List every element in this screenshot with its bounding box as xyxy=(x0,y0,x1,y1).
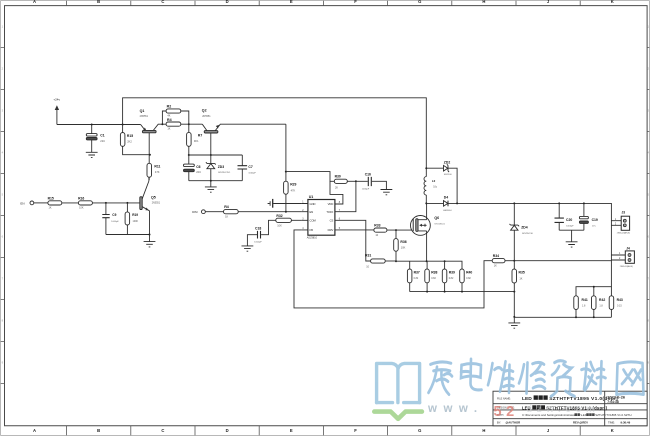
ground (C18) xyxy=(242,246,254,251)
transistor Q2 xyxy=(202,109,286,155)
resistor R19 xyxy=(125,203,138,235)
node source rail taps xyxy=(426,260,446,262)
svg-text:0.82: 0.82 xyxy=(466,277,471,280)
ground (sense) xyxy=(508,317,520,328)
char 4 xiu xyxy=(519,362,545,393)
input DIM xyxy=(192,210,223,214)
svg-text:22U: 22U xyxy=(196,170,201,174)
ground (C1) xyxy=(86,152,98,157)
svg-text:C6: C6 xyxy=(196,165,200,169)
row1 bold title xyxy=(522,394,626,404)
svg-text:DRV: DRV xyxy=(328,228,334,232)
svg-text:SB2100: SB2100 xyxy=(444,174,453,176)
resistor R4 xyxy=(162,118,202,131)
wire top boost rail xyxy=(123,98,427,168)
resistor R15 (EN) xyxy=(48,196,79,209)
char 6 liao xyxy=(582,361,606,393)
resistor R34 xyxy=(492,254,514,268)
svg-text:LED: LED xyxy=(522,396,532,402)
svg-text:R43: R43 xyxy=(617,298,623,302)
power +24v xyxy=(53,98,60,125)
svg-text:2863-02(AH-M): 2863-02(AH-M) xyxy=(620,265,633,268)
svg-text:Q2: Q2 xyxy=(202,109,207,113)
svg-text:22U: 22U xyxy=(100,139,105,143)
svg-text:E: E xyxy=(290,0,293,4)
ground (ZD3) xyxy=(205,181,217,193)
svg-text:1K: 1K xyxy=(519,278,522,281)
node Q1 base xyxy=(149,154,151,156)
svg-text:+24v: +24v xyxy=(53,98,60,102)
wire VDD net vertical xyxy=(285,124,287,181)
svg-text:ZD4: ZD4 xyxy=(521,225,528,229)
wire Q6 drain xyxy=(426,203,428,219)
svg-text:A: A xyxy=(33,0,36,4)
svg-text:R35: R35 xyxy=(519,271,525,275)
svg-text:FB: FB xyxy=(310,228,314,232)
wire sense bottom rail xyxy=(410,291,515,293)
svg-text:1000pF: 1000pF xyxy=(566,226,574,228)
wire C6/ZD3/C7 top rail xyxy=(189,154,243,156)
svg-text:0.82: 0.82 xyxy=(431,277,436,280)
svg-text:AOZ9810: AOZ9810 xyxy=(307,237,318,240)
IC U1 xyxy=(302,195,341,240)
node clamp top rail xyxy=(188,154,212,156)
resistor R40 xyxy=(460,269,473,292)
svg-text:TOFF: TOFF xyxy=(326,210,333,214)
svg-text:R29: R29 xyxy=(290,183,296,187)
svg-text:TIME:: TIME: xyxy=(608,420,615,424)
watermark chinese brush text xyxy=(429,359,644,396)
zener ZD4 xyxy=(510,203,534,260)
zener ZD2 xyxy=(426,160,457,203)
node CS sense xyxy=(395,260,397,262)
svg-text:1000pF: 1000pF xyxy=(254,242,262,244)
capacitor C7 xyxy=(238,155,257,181)
wire TOFF xyxy=(335,181,356,211)
char 2 dian xyxy=(461,359,482,390)
svg-text:C19: C19 xyxy=(592,218,598,222)
ground (Q5) xyxy=(144,235,156,247)
svg-text:HER504: HER504 xyxy=(443,210,452,212)
svg-text:2N5551: 2N5551 xyxy=(152,202,161,205)
svg-text:B: B xyxy=(97,428,100,433)
svg-text:52: 52 xyxy=(494,404,519,420)
watermark url xyxy=(427,403,599,420)
node ZD2 return xyxy=(456,202,458,204)
wire bottom right rail xyxy=(514,316,611,318)
node L2 top xyxy=(425,167,427,169)
node R2/R4 ends xyxy=(161,123,189,125)
resistor R11 xyxy=(147,155,161,180)
wire +24V rail xyxy=(57,124,141,126)
wire LED return xyxy=(514,261,611,296)
svg-text:STU19L01: STU19L01 xyxy=(434,223,445,225)
input EN xyxy=(20,201,48,205)
svg-text:R40: R40 xyxy=(466,271,472,275)
char 7 wang xyxy=(617,362,644,395)
node VDD branch xyxy=(285,171,287,173)
inductor L2 xyxy=(424,168,438,203)
svg-text:1000pF: 1000pF xyxy=(362,189,370,191)
svg-text:B: B xyxy=(97,0,100,4)
svg-text:FILE NAME:: FILE NAME: xyxy=(497,398,511,401)
svg-text:R36: R36 xyxy=(400,240,406,244)
svg-text:2N5551: 2N5551 xyxy=(202,115,211,118)
svg-text:R11: R11 xyxy=(154,164,160,168)
resistor R42 xyxy=(592,287,606,318)
node L2 bottom / drain xyxy=(425,202,427,204)
svg-text:dzw.com: dzw.com xyxy=(526,404,599,415)
resistor R36 xyxy=(394,230,407,261)
svg-text:E: E xyxy=(290,428,293,433)
svg-text:R42: R42 xyxy=(599,298,605,302)
svg-text:R41: R41 xyxy=(582,298,588,302)
svg-text:9K1: 9K1 xyxy=(194,139,199,143)
node C1 tap xyxy=(91,124,124,126)
svg-text:2K2: 2K2 xyxy=(127,139,132,143)
svg-text:F: F xyxy=(354,428,357,433)
svg-text:R19: R19 xyxy=(132,213,138,217)
svg-text:47K: 47K xyxy=(155,170,160,174)
resistor R2 xyxy=(162,104,188,124)
wire C6/ZD3/C7 bottom rail xyxy=(189,180,243,182)
resistor R41 xyxy=(574,296,588,318)
connector J4 xyxy=(611,247,634,268)
svg-text:L2: L2 xyxy=(432,179,436,183)
svg-text:R4: R4 xyxy=(224,205,229,209)
node EN/R29 xyxy=(285,211,287,213)
node sense bottom taps xyxy=(426,291,515,293)
svg-text:J3: J3 xyxy=(622,211,626,215)
ground (output caps) xyxy=(566,230,578,247)
capacitor C20 xyxy=(555,203,575,230)
resistor R30 xyxy=(334,175,356,190)
char 5 zi xyxy=(551,361,575,397)
resistor R35 xyxy=(512,261,525,317)
svg-text:EN: EN xyxy=(310,210,314,214)
svg-text:DIM: DIM xyxy=(192,210,198,214)
svg-text:H: H xyxy=(482,0,485,4)
resistor R31 xyxy=(365,254,396,269)
svg-text:BZV85C30: BZV85C30 xyxy=(522,233,533,235)
svg-text:R33: R33 xyxy=(374,224,380,228)
wire DRV to gate xyxy=(335,229,374,231)
svg-text:VDD: VDD xyxy=(328,202,334,206)
resistor R43 xyxy=(609,287,623,318)
svg-text:47K: 47K xyxy=(291,188,296,192)
svg-text:K: K xyxy=(611,428,614,433)
svg-text:C20: C20 xyxy=(566,218,572,222)
row3 path xyxy=(522,413,632,417)
svg-text:ZD3: ZD3 xyxy=(218,165,225,169)
svg-text:G: G xyxy=(418,428,421,433)
capacitor C19 xyxy=(579,203,598,230)
resistor R33 xyxy=(374,224,412,238)
svg-text:10K: 10K xyxy=(79,207,84,210)
svg-text:R15: R15 xyxy=(48,196,54,200)
svg-text:9:36:49: 9:36:49 xyxy=(621,420,631,424)
svg-text:D4: D4 xyxy=(444,195,448,199)
svg-text:www.: www. xyxy=(427,403,484,415)
svg-text:R7: R7 xyxy=(198,134,202,138)
svg-text:R38: R38 xyxy=(431,271,437,275)
wire FB loop xyxy=(294,230,492,308)
svg-text:C7: C7 xyxy=(248,165,252,169)
capacitor at GND pin xyxy=(268,199,302,208)
wire source sense rail xyxy=(396,261,462,269)
svg-text:R39: R39 xyxy=(449,271,455,275)
wire output rail xyxy=(514,203,611,260)
svg-text:0.82: 0.82 xyxy=(414,277,419,280)
MOSFET Q6 xyxy=(411,216,446,236)
wire Q5 bottom rail xyxy=(106,234,150,236)
svg-text:R30: R30 xyxy=(335,175,341,179)
resistor R29 xyxy=(284,181,297,212)
node output rail taps xyxy=(513,202,585,204)
svg-text:@AUTHOR: @AUTHOR xyxy=(506,420,521,424)
diode D4 xyxy=(426,195,514,211)
node R42 top xyxy=(593,286,595,288)
svg-text:Q6: Q6 xyxy=(434,216,439,220)
resistor R38 xyxy=(425,261,438,291)
node clamp bottom xyxy=(210,180,212,182)
svg-text:SZTHTFTV1895 V1.0.SZTH: SZTHTFTV1895 V1.0.SZTH xyxy=(595,413,631,417)
svg-text:BZV85C3V1: BZV85C3V1 xyxy=(218,172,231,174)
svg-text:1K: 1K xyxy=(49,207,52,210)
svg-text:2N5551: 2N5551 xyxy=(140,115,149,118)
resistor R15 (2K2) xyxy=(120,125,149,155)
svg-text:2K: 2K xyxy=(335,186,338,189)
svg-text:R4: R4 xyxy=(167,118,172,122)
svg-text:R15: R15 xyxy=(127,134,133,138)
svg-text:1000pF: 1000pF xyxy=(111,221,119,223)
svg-text:2863-02(AH-M): 2863-02(AH-M) xyxy=(617,232,630,235)
svg-text:K: K xyxy=(611,0,614,4)
resistor R4 (DIM) xyxy=(224,205,302,218)
node ground rail xyxy=(513,316,515,318)
svg-text:ZD2: ZD2 xyxy=(444,160,451,164)
svg-text:D: D xyxy=(226,0,229,4)
zener ZD3 xyxy=(206,155,231,181)
wire VDD pin route xyxy=(330,181,343,204)
watermark logo swoosh xyxy=(374,412,422,419)
node C9/R19 taps xyxy=(105,202,128,204)
wire to R30 xyxy=(286,172,334,182)
svg-text:R31: R31 xyxy=(365,254,371,258)
svg-text:R32: R32 xyxy=(276,214,282,218)
resistor R37 xyxy=(407,261,420,291)
svg-text:COM: COM xyxy=(310,219,317,223)
svg-text:1K: 1K xyxy=(167,128,170,131)
svg-text:0.82: 0.82 xyxy=(449,277,454,280)
ground (C16) xyxy=(381,190,393,195)
resistor R32 xyxy=(261,214,302,235)
svg-text:Q1: Q1 xyxy=(140,109,145,113)
char 3 wei xyxy=(488,361,514,392)
resistor R16 xyxy=(78,196,140,209)
svg-text:10K: 10K xyxy=(277,224,282,227)
char 1 jia xyxy=(429,362,453,394)
capacitor C1 xyxy=(86,125,105,153)
svg-text:C18: C18 xyxy=(255,226,261,230)
svg-text:1K: 1K xyxy=(494,265,497,268)
svg-text:0.15: 0.15 xyxy=(617,304,622,307)
svg-text:A: A xyxy=(33,428,36,433)
wire output cap bottom xyxy=(559,229,584,231)
transistor Q1 xyxy=(140,109,163,155)
watermark logo book xyxy=(377,363,420,402)
svg-text:G: G xyxy=(418,0,421,4)
capacitor C9 xyxy=(102,203,119,235)
resistor R7 xyxy=(187,124,203,155)
connector J3 xyxy=(611,211,630,235)
svg-text:GND: GND xyxy=(310,202,316,206)
svg-text:EN: EN xyxy=(20,201,24,205)
svg-text:C: C xyxy=(161,428,164,433)
capacitor C6 xyxy=(184,155,202,181)
svg-text:U1: U1 xyxy=(309,195,314,199)
svg-text:C1: C1 xyxy=(100,134,104,138)
node gate xyxy=(395,229,397,231)
node R30/C16/TOFF xyxy=(355,180,357,182)
svg-text:C16: C16 xyxy=(365,173,371,177)
svg-text:R2: R2 xyxy=(167,104,172,108)
schematic wires and components xyxy=(20,98,634,329)
svg-text:CS: CS xyxy=(330,219,334,223)
wire CS net xyxy=(335,220,371,261)
capacitor C16 xyxy=(356,173,387,191)
svg-text:REV:@REV: REV:@REV xyxy=(573,420,588,424)
title block xyxy=(493,391,647,426)
node FB divider xyxy=(513,260,515,262)
node R41/R42 bottom xyxy=(575,316,595,318)
svg-text:100K: 100K xyxy=(133,220,139,223)
transistor Q5 xyxy=(140,177,161,234)
svg-text:Q5: Q5 xyxy=(151,195,156,199)
svg-text:J4: J4 xyxy=(626,247,630,251)
svg-text:1000pF: 1000pF xyxy=(248,172,256,174)
svg-text:R37: R37 xyxy=(414,271,420,275)
capacitor C18 xyxy=(247,226,262,245)
svg-text:H: H xyxy=(482,428,485,433)
svg-text:D: D xyxy=(226,428,229,433)
svg-text:10K: 10K xyxy=(401,245,406,249)
row2 title xyxy=(522,405,608,410)
svg-text:C: C xyxy=(161,0,164,4)
wire Q6 source xyxy=(426,231,428,261)
svg-text:C9: C9 xyxy=(112,213,116,217)
svg-text:F: F xyxy=(354,0,357,4)
node Q5 emitter xyxy=(149,234,151,236)
svg-text:1K: 1K xyxy=(225,215,228,218)
svg-text:R16: R16 xyxy=(78,196,84,200)
svg-text:BY:: BY: xyxy=(497,420,501,424)
resistor R39 xyxy=(442,261,455,291)
svg-text:R34: R34 xyxy=(493,254,499,258)
svg-text:7:04:38: 7:04:38 xyxy=(607,400,619,404)
